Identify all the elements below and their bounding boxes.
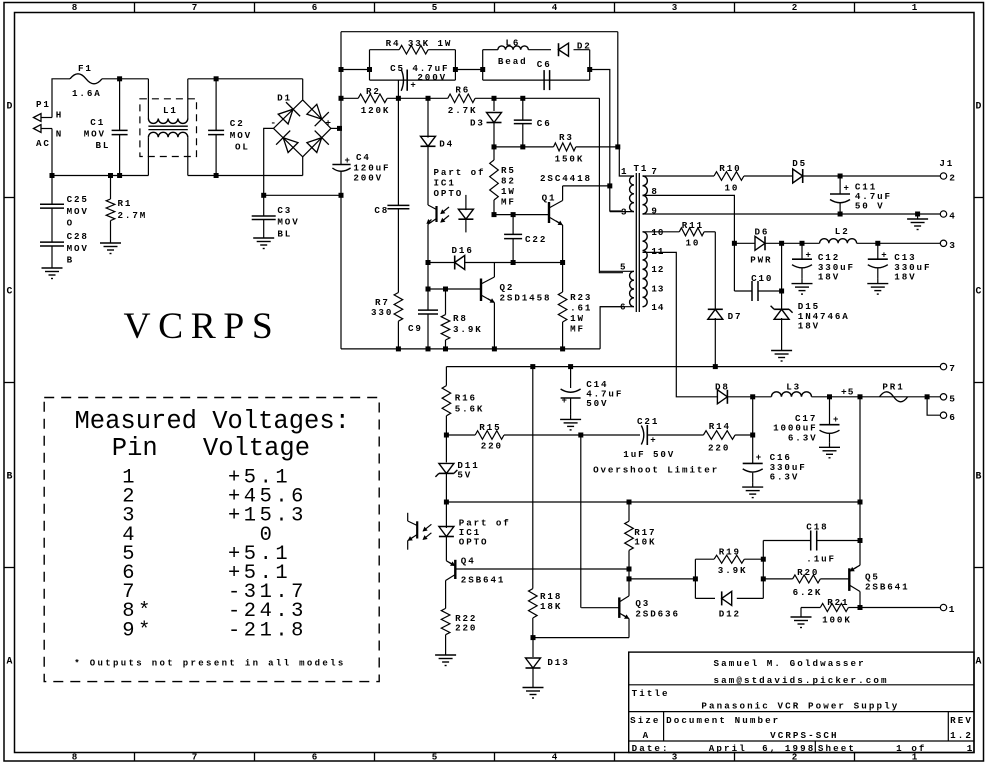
capacitor C4 120uF 200V — [332, 152, 390, 184]
resistor R6 2.7K — [448, 85, 478, 117]
svg-text:2SD636: 2SD636 — [635, 609, 679, 620]
junction ground tap pin4 line — [915, 212, 920, 217]
capacitor C1 MOV BL — [84, 79, 128, 176]
svg-text:R8: R8 — [453, 313, 468, 324]
diode D12 — [719, 591, 741, 619]
svg-text:8: 8 — [72, 2, 78, 13]
svg-text:3: 3 — [949, 240, 955, 251]
wire pin8 to D6 — [643, 195, 735, 243]
ground below C17 — [819, 442, 840, 458]
svg-text:2: 2 — [792, 2, 798, 13]
svg-text:OPTO: OPTO — [459, 537, 489, 548]
svg-text:H: H — [56, 110, 63, 121]
wire top rail — [341, 32, 618, 147]
svg-text:MOV: MOV — [67, 206, 89, 217]
wire output 1 — [860, 607, 941, 609]
wire R4C5 block input — [341, 69, 370, 71]
svg-text:Bead: Bead — [498, 56, 528, 67]
junction C5 tap / C8 branch — [396, 96, 401, 101]
svg-text:D7: D7 — [728, 311, 743, 322]
svg-text:+: + — [650, 436, 655, 446]
capacitor C9 — [408, 263, 438, 349]
svg-text:.1uF: .1uF — [806, 553, 836, 564]
svg-text:R4 33K 1W: R4 33K 1W — [386, 38, 453, 49]
svg-text:1.2: 1.2 — [950, 730, 973, 741]
wire D8out down to C16 — [752, 397, 754, 464]
wire to J1 pin 6 — [927, 397, 941, 415]
svg-text:.61: .61 — [570, 303, 592, 314]
svg-text:MF: MF — [501, 197, 516, 208]
svg-text:+: + — [833, 415, 838, 425]
connector J1 pin 5 — [940, 394, 955, 405]
capacitor C2 MOV OL — [208, 79, 252, 176]
svg-text:D5: D5 — [792, 158, 807, 169]
svg-text:N: N — [56, 128, 63, 139]
connector J1 pin 2 — [939, 158, 955, 184]
resistor R11 10 — [643, 220, 716, 249]
wire bridge minus to C3 node — [264, 128, 274, 195]
svg-text:R21: R21 — [827, 597, 849, 608]
svg-text:D13: D13 — [547, 657, 569, 668]
svg-text:MOV: MOV — [277, 217, 299, 228]
svg-text:50 V: 50 V — [855, 201, 885, 212]
junction C1 bottom — [117, 173, 122, 178]
wire R2R6 line — [341, 97, 599, 99]
svg-text:R16: R16 — [455, 393, 477, 404]
svg-text:1uF 50V: 1uF 50V — [623, 449, 675, 460]
svg-text:150K: 150K — [555, 153, 585, 164]
wire +5 node — [830, 396, 942, 398]
diode D13 — [526, 638, 570, 683]
svg-text:A: A — [976, 656, 982, 667]
net label +5 — [841, 387, 854, 398]
svg-text:1 of: 1 of — [896, 743, 926, 754]
svg-text:18V: 18V — [798, 321, 820, 332]
svg-text:4: 4 — [552, 2, 558, 13]
svg-text:1W: 1W — [570, 313, 585, 324]
junction Q1 base line nodes — [492, 212, 516, 217]
opto IC1 phototransistor (part 1) — [427, 167, 485, 263]
svg-text:5: 5 — [432, 2, 438, 13]
resistor R10 10 — [714, 163, 744, 194]
svg-text:BL: BL — [96, 140, 111, 151]
svg-text:D4: D4 — [439, 139, 454, 150]
svg-text:Date:: Date: — [632, 743, 670, 754]
svg-text:Pin: Pin — [112, 434, 158, 463]
junction L6 block ports — [480, 67, 592, 72]
T1 winding pins 5-6 — [599, 262, 634, 313]
capacitor C25 MOV O — [40, 176, 89, 243]
svg-text:T1: T1 — [634, 163, 649, 174]
connector J1 pin 7 — [940, 363, 955, 374]
svg-text:100K: 100K — [822, 615, 852, 626]
capacitor C6 (snubber) — [537, 59, 552, 90]
svg-text:10: 10 — [725, 183, 740, 194]
junction C2 bottom — [214, 173, 219, 178]
svg-text:R10: R10 — [719, 163, 741, 174]
inductor L6 Bead with C6 parallel block — [483, 37, 590, 80]
fuse F1 1.6A — [70, 63, 102, 99]
svg-text:sam@stdavids.picker.com: sam@stdavids.picker.com — [714, 675, 889, 686]
svg-text:+: + — [325, 117, 331, 128]
svg-text:D16: D16 — [452, 245, 474, 256]
svg-text:D3: D3 — [470, 118, 485, 129]
svg-text:VCRPS-SCH: VCRPS-SCH — [770, 730, 839, 741]
svg-text:1: 1 — [621, 166, 627, 177]
svg-text:C25: C25 — [67, 194, 89, 205]
capacitor C13 330uF 18V — [868, 243, 932, 282]
svg-text:C4: C4 — [356, 152, 371, 163]
resistor R16 5.6K — [442, 367, 484, 435]
svg-text:Q4: Q4 — [461, 556, 476, 567]
title block — [629, 652, 975, 754]
capacitor C5 4.7uF 200V — [390, 63, 449, 91]
diode D6 PWR — [734, 227, 781, 266]
wire D6 to L2 to J1 pin3 — [782, 242, 942, 244]
resistor R18 18K — [529, 367, 563, 638]
wire pin9 line to J1 pin 4 — [643, 213, 942, 215]
zener diode D11 5V — [435, 435, 479, 502]
svg-text:220: 220 — [708, 442, 730, 453]
svg-text:4: 4 — [949, 211, 955, 222]
svg-text:Measured Voltages:: Measured Voltages: — [75, 407, 350, 436]
resistor R14 220 — [703, 421, 735, 453]
svg-text:MOV: MOV — [67, 243, 89, 254]
svg-text:1: 1 — [967, 743, 975, 754]
junction D4 branch — [426, 96, 431, 101]
svg-text:-: - — [270, 117, 276, 128]
junction R14 right / C16 — [750, 433, 755, 438]
svg-text:7: 7 — [192, 752, 198, 763]
negative rail wire — [264, 194, 341, 196]
svg-text:C10: C10 — [751, 273, 773, 284]
svg-text:14: 14 — [651, 302, 664, 313]
junction D16 line nodes — [426, 260, 566, 265]
svg-text:2: 2 — [949, 173, 955, 184]
svg-text:L3: L3 — [786, 381, 801, 392]
svg-text:P1: P1 — [36, 99, 51, 110]
svg-text:R5: R5 — [501, 165, 516, 176]
svg-text:5: 5 — [620, 262, 626, 273]
svg-text:1: 1 — [949, 604, 955, 615]
svg-text:120K: 120K — [361, 105, 391, 116]
capacitor C17 1000uF 6.3V — [773, 397, 839, 444]
ground below D13 — [523, 683, 544, 699]
junction D8 out — [750, 394, 755, 399]
junction R4C5 block ports — [367, 67, 458, 72]
svg-text:3: 3 — [621, 207, 627, 218]
resistor R17 10K — [625, 502, 657, 569]
resistor R22 220 — [441, 608, 477, 650]
svg-text:18V: 18V — [818, 272, 840, 283]
svg-text:50V: 50V — [586, 398, 608, 409]
svg-text:1W: 1W — [501, 186, 516, 197]
wire P1-H to fuse — [52, 79, 70, 118]
svg-text:3.9K: 3.9K — [453, 324, 483, 335]
diode D8 — [715, 381, 753, 403]
capacitor C8 — [374, 98, 409, 292]
ground at R21 — [791, 608, 812, 628]
transistor Q5 2SB641 — [849, 565, 909, 607]
svg-text:D2: D2 — [577, 41, 592, 52]
bridge rectifier D1 — [270, 92, 331, 156]
wire F1 to L1 — [102, 78, 148, 80]
wire +5 feedback vertical — [859, 397, 861, 565]
junction R15 line left — [444, 433, 449, 438]
svg-text:R15: R15 — [479, 422, 501, 433]
wire Q1 base line — [494, 214, 549, 216]
inductor L3 — [753, 381, 830, 396]
svg-text:C2: C2 — [230, 118, 245, 129]
wire R15 line — [446, 434, 752, 436]
junction C11 bottom — [838, 212, 843, 217]
junction C10 right — [779, 289, 784, 294]
svg-text:D: D — [976, 101, 982, 112]
svg-text:R11: R11 — [682, 220, 704, 231]
diode D2 — [559, 41, 592, 57]
ground below C14 — [560, 414, 581, 430]
svg-text:C9: C9 — [408, 323, 423, 334]
svg-text:R6: R6 — [455, 85, 470, 96]
junction D6 anode node — [732, 241, 737, 246]
wire pin11 to D8 — [643, 252, 718, 396]
ground below C13 — [867, 279, 888, 295]
svg-text:Overshoot Limiter: Overshoot Limiter — [593, 464, 719, 475]
wire R6 end down to T1 pin5 — [599, 98, 623, 272]
svg-text:D: D — [7, 101, 13, 112]
svg-text:9: 9 — [651, 206, 657, 217]
svg-text:C: C — [976, 286, 982, 297]
capacitor C6 (second) — [514, 98, 552, 147]
wire Q3 base drive from C21 node — [580, 435, 582, 608]
svg-text:OPTO: OPTO — [434, 188, 464, 199]
junction R19 block taps — [693, 557, 766, 582]
svg-text:6: 6 — [312, 752, 318, 763]
svg-text:L6: L6 — [506, 37, 521, 48]
capacitor C12 330uF 18V — [792, 243, 855, 282]
junction rail nodes — [530, 364, 718, 369]
wire D16 line — [428, 262, 563, 264]
transistor Q1 2SC4418 — [540, 173, 610, 263]
capacitor C21 1uF 50V — [623, 416, 675, 460]
junction bottom rail nodes — [396, 346, 565, 351]
svg-text:A: A — [7, 656, 13, 667]
svg-text:Title: Title — [632, 688, 670, 699]
svg-text:BL: BL — [277, 229, 292, 240]
junction pin6 branch — [925, 394, 930, 399]
svg-text:7: 7 — [651, 166, 657, 177]
text Overshoot Limiter — [593, 464, 719, 475]
resistor R2 120K — [358, 86, 390, 116]
svg-text:VCRPS: VCRPS — [124, 306, 281, 347]
svg-text:3: 3 — [672, 2, 678, 13]
diode D4 — [421, 98, 455, 205]
svg-text:L1: L1 — [163, 105, 178, 116]
svg-text:330: 330 — [371, 307, 393, 318]
opto IC1 LED (part 2) — [423, 502, 510, 561]
junction C12 top — [800, 241, 805, 246]
svg-text:Q2: Q2 — [500, 282, 515, 293]
svg-text:R3: R3 — [559, 132, 574, 143]
svg-text:3.9K: 3.9K — [718, 565, 748, 576]
junction Q5 collector out — [858, 605, 863, 610]
svg-text:8: 8 — [72, 752, 78, 763]
svg-text:C21: C21 — [637, 416, 659, 427]
svg-text:18V: 18V — [894, 272, 916, 283]
svg-text:REV: REV — [950, 715, 973, 726]
svg-text:L2: L2 — [835, 226, 850, 237]
svg-text:+: + — [345, 156, 350, 166]
resistor R21 100K — [801, 597, 860, 626]
junction C17 top — [827, 394, 832, 399]
svg-text:2SB641: 2SB641 — [865, 581, 909, 592]
svg-text:2SB641: 2SB641 — [461, 575, 505, 586]
capacitor C18 .1uF — [763, 522, 860, 565]
svg-text:PWR: PWR — [750, 255, 772, 266]
svg-text:MF: MF — [570, 324, 585, 335]
junction Q3 collector node — [627, 576, 632, 581]
svg-text:AC: AC — [36, 138, 51, 149]
svg-text:R14: R14 — [709, 421, 731, 432]
resistor R1 2.7M — [106, 176, 147, 239]
wire Q3 emitter line — [533, 637, 629, 639]
svg-text:Sheet: Sheet — [818, 743, 856, 754]
transistor Q2 2SD1458 — [481, 263, 551, 349]
connector J1 pin 3 — [940, 240, 955, 251]
svg-text:IC1: IC1 — [434, 178, 456, 189]
svg-text:* Outputs not present in all m: * Outputs not present in all models — [74, 659, 345, 669]
resistor R15 220 — [475, 422, 504, 452]
svg-text:Part of: Part of — [434, 167, 486, 178]
svg-text:OL: OL — [235, 142, 250, 153]
ground below C16 — [742, 482, 763, 498]
svg-text:6.3V: 6.3V — [770, 472, 800, 483]
svg-text:6: 6 — [312, 2, 318, 13]
wire Q2 base line — [428, 288, 481, 290]
svg-text:D8: D8 — [715, 381, 730, 392]
posistor PR1 — [880, 381, 908, 401]
capacitor C22 — [504, 215, 547, 263]
svg-text:220: 220 — [481, 441, 503, 452]
wire AC top to bridge — [188, 79, 303, 100]
junction Q4 base node — [627, 567, 632, 572]
resistor R8 3.9K — [441, 289, 482, 349]
diode D3 — [470, 98, 502, 147]
svg-text:10: 10 — [686, 238, 701, 249]
capacitor C28 MOV B — [40, 231, 89, 266]
connector J1 pin 6 — [940, 412, 955, 423]
wire P1-N down — [51, 129, 53, 176]
svg-text:C22: C22 — [525, 234, 547, 245]
ground on pin4 line — [907, 214, 928, 230]
svg-text:D6: D6 — [755, 227, 770, 238]
svg-text:C28: C28 — [67, 231, 89, 242]
svg-text:J1: J1 — [939, 158, 954, 169]
junction Q1 collector node — [607, 183, 612, 188]
svg-text:+: + — [562, 396, 567, 406]
wire pin7 line — [643, 175, 942, 177]
transformer T1 core — [634, 163, 649, 312]
junction C18 right — [858, 538, 863, 543]
ground below D15 — [771, 346, 792, 362]
wire output7 rail — [446, 366, 941, 368]
wire switcher bottom rail — [341, 307, 623, 349]
junction D3 top — [492, 96, 497, 101]
svg-text:200V: 200V — [417, 72, 447, 83]
resistor R3 150K — [554, 132, 585, 164]
svg-text:+: + — [756, 453, 761, 463]
svg-text:C6: C6 — [537, 118, 552, 129]
svg-text:+: + — [410, 81, 415, 91]
wire R17 line — [446, 501, 860, 503]
svg-text:C6: C6 — [537, 59, 552, 70]
svg-text:2SD1458: 2SD1458 — [500, 293, 552, 304]
svg-text:MOV: MOV — [230, 130, 252, 141]
svg-text:2.7K: 2.7K — [448, 105, 478, 116]
junction R17 line nodes — [444, 500, 863, 505]
svg-text:1: 1 — [912, 2, 918, 13]
svg-text:5: 5 — [432, 752, 438, 763]
svg-text:C: C — [7, 286, 13, 297]
svg-text:6.2K: 6.2K — [793, 587, 823, 598]
svg-text:B: B — [67, 255, 74, 266]
connector P1 — [34, 99, 64, 149]
inductor L2 — [820, 226, 857, 244]
ground below R22 — [435, 650, 456, 666]
junction C1 top — [117, 76, 122, 81]
svg-text:MOV: MOV — [84, 128, 106, 139]
svg-text:D1: D1 — [277, 92, 292, 103]
opto IC1 phototransistor stub (part 2) — [408, 513, 418, 550]
wire Q3 collector to R19 block — [629, 569, 695, 596]
svg-text:6.3V: 6.3V — [788, 433, 818, 444]
svg-text:+: + — [844, 184, 849, 194]
svg-text:10: 10 — [651, 227, 664, 238]
svg-text:82: 82 — [501, 176, 516, 187]
junction C6b top — [520, 96, 525, 101]
junction Q3 drive node — [578, 433, 583, 438]
svg-text:4: 4 — [552, 752, 558, 763]
junction Q2 base nodes — [426, 287, 449, 292]
svg-text:12: 12 — [651, 264, 664, 275]
junction D6 cathode node — [779, 241, 784, 246]
svg-text:R2: R2 — [366, 86, 381, 97]
wire block1 to block2 — [455, 69, 482, 71]
svg-text:6: 6 — [620, 302, 626, 313]
svg-text:5: 5 — [949, 394, 955, 405]
svg-text:D12: D12 — [719, 609, 741, 620]
svg-text:-21.8: -21.8 — [228, 619, 307, 642]
svg-text:O: O — [67, 218, 74, 229]
svg-text:1.6A: 1.6A — [72, 88, 102, 99]
common-mode choke L1 — [140, 79, 197, 176]
wire AC bottom — [52, 157, 303, 176]
junction R1 top — [108, 173, 113, 178]
svg-text:Q1: Q1 — [542, 193, 557, 204]
resistor R5 82 1W MF — [490, 147, 516, 215]
junction HV rail taps — [339, 67, 344, 198]
junction C25/AC-bottom — [50, 173, 55, 178]
svg-text:+5: +5 — [841, 387, 854, 398]
transistor Q4 2SB641 — [446, 556, 629, 609]
svg-text:C1: C1 — [90, 117, 105, 128]
svg-text:C18: C18 — [806, 522, 828, 533]
svg-text:10K: 10K — [634, 537, 656, 548]
svg-text:+: + — [806, 251, 811, 261]
svg-text:B: B — [7, 471, 13, 482]
T1 secondary winding pins 10-14 — [643, 227, 665, 313]
svg-text:R23: R23 — [570, 292, 592, 303]
